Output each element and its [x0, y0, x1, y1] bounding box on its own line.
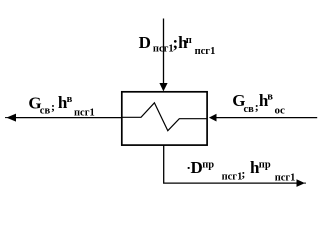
arrowhead tip stub left — [5, 117, 8, 119]
svg-text:пр: пр — [259, 159, 271, 170]
svg-text:псг1: псг1 — [153, 44, 174, 55]
svg-text:D: D — [139, 33, 151, 52]
svg-text:св: св — [244, 104, 255, 115]
wire: network water inlet line (right) — [216, 117, 317, 119]
label D^pr psg1 ; h^pr psg1 (drain flow) — [191, 158, 296, 183]
svg-text:пр: пр — [202, 160, 214, 171]
svg-text:;: ; — [241, 167, 245, 181]
svg-text:D: D — [191, 158, 203, 177]
arrowhead: water inlet pointing left into heater — [209, 114, 217, 122]
wire: steam inlet vertical line — [163, 19, 165, 85]
heating surface zigzag inside heater — [122, 103, 207, 131]
wire: network water outlet line (left) — [8, 117, 122, 119]
svg-text:псг1: псг1 — [195, 46, 216, 57]
label G sv ; h^v psg1 (outlet water) — [28, 93, 94, 119]
label G sv ; h^v os (return water) — [232, 91, 285, 117]
svg-text:в: в — [267, 91, 273, 102]
heat exchanger PSG1 box — [122, 92, 207, 145]
small dot before D — [188, 167, 190, 169]
svg-text:псг1: псг1 — [222, 172, 243, 183]
svg-text:в: в — [67, 94, 73, 105]
arrowhead: water outlet pointing left — [6, 114, 16, 122]
svg-text:п: п — [186, 35, 192, 46]
arrowhead tip stub right — [304, 182, 306, 184]
svg-text:св: св — [40, 106, 51, 117]
svg-text:ос: ос — [275, 104, 286, 116]
svg-text:;: ; — [51, 99, 55, 113]
label D psg1 ; h^p psg1 (steam flow) — [139, 33, 216, 57]
wire: drain outlet vertical from heater bottom — [164, 145, 297, 183]
arrowhead: steam inlet into heater top — [159, 83, 167, 91]
arrowhead: drain outlet pointing right — [297, 179, 305, 187]
svg-text:псг1: псг1 — [74, 107, 95, 118]
svg-text:псг1: псг1 — [275, 172, 296, 183]
